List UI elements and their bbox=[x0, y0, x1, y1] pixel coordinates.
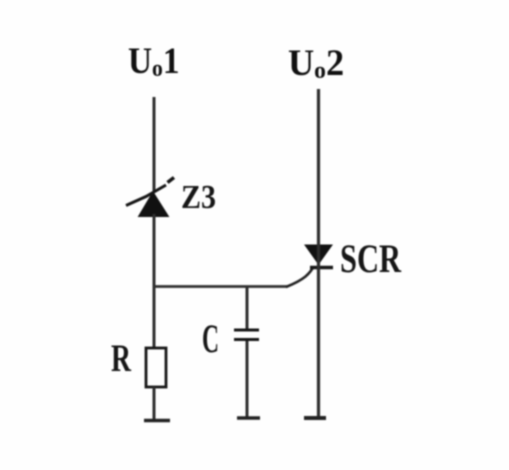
net label Uo2 bbox=[288, 42, 344, 84]
wire: Uo2 lead down through SCR to bottom terminal bbox=[317, 89, 320, 418]
wire: Uo1 lead down to zener Z3 cathode bbox=[153, 97, 156, 192]
zener diode Z3 bbox=[126, 178, 174, 217]
wire: capacitor C bottom plate to bottom terminal bbox=[246, 341, 249, 418]
wire: node A down to capacitor C top plate bbox=[246, 286, 249, 330]
terminal bar under resistor branch bbox=[144, 419, 170, 422]
resistor R bbox=[146, 348, 166, 387]
svg-text:Uo1: Uo1 bbox=[128, 40, 180, 81]
svg-text:C: C bbox=[202, 316, 219, 361]
wire: resistor R to bottom terminal bbox=[153, 387, 156, 420]
SCR (thyristor) bbox=[305, 245, 333, 268]
wire: curved gate lead to SCR bbox=[286, 267, 314, 288]
svg-text:Z3: Z3 bbox=[181, 179, 216, 216]
terminal bar under capacitor branch bbox=[237, 416, 260, 419]
svg-text:SCR: SCR bbox=[340, 236, 402, 281]
terminal bar under SCR branch bbox=[304, 416, 326, 420]
wire: horizontal from node A toward SCR gate bbox=[153, 285, 288, 288]
wire: zener Z3 anode down through node A to resistor R bbox=[153, 214, 156, 349]
svg-text:R: R bbox=[111, 337, 132, 380]
net label Uo1 bbox=[128, 40, 180, 81]
svg-text:Uo2: Uo2 bbox=[288, 42, 344, 84]
capacitor C bbox=[234, 330, 259, 340]
